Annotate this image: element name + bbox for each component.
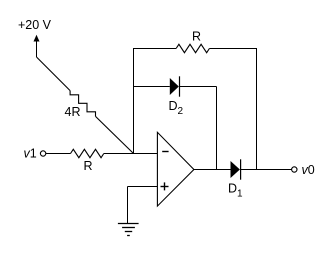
- resistor R feedback: [176, 44, 209, 52]
- wire diagonal lower: [96, 116, 134, 153]
- diode D2: [170, 78, 179, 95]
- svg-text:v1: v1: [24, 147, 37, 161]
- svg-text:4R: 4R: [65, 105, 81, 119]
- wire D1 to output terminal: [241, 169, 292, 171]
- resistor R input: [71, 149, 104, 157]
- wire D2 branch right: [180, 86, 217, 88]
- wire right feedback vertical: [256, 49, 258, 170]
- wire noninverting input: [128, 186, 158, 188]
- wire feedback top right: [209, 48, 257, 50]
- op-amp U1: [157, 132, 194, 206]
- power arrow: [34, 35, 40, 42]
- resistor 4R: [70, 91, 95, 117]
- svg-text:R: R: [192, 30, 201, 44]
- wire D2 branch vertical: [216, 87, 218, 170]
- terminal v0: [292, 167, 297, 172]
- wire left feedback vertical: [133, 49, 135, 154]
- svg-text:+20 V: +20 V: [18, 18, 52, 32]
- diode D1: [231, 161, 240, 178]
- svg-text:R: R: [84, 159, 93, 173]
- ground: [118, 223, 139, 225]
- wire R to op-amp inverting input: [104, 153, 158, 155]
- terminal v1: [40, 151, 45, 156]
- wire power stem: [36, 41, 38, 58]
- wire D2 branch left: [134, 86, 170, 88]
- wire diagonal upper: [37, 57, 71, 91]
- op-amp noninverting input marker: [161, 186, 169, 188]
- svg-text:v0: v0: [302, 163, 315, 177]
- wire v1 to R: [46, 153, 71, 155]
- wire op-amp output: [194, 169, 231, 171]
- wire feedback top left: [133, 48, 176, 50]
- wire ground drop: [127, 187, 129, 224]
- op-amp inverting input marker: [162, 151, 168, 153]
